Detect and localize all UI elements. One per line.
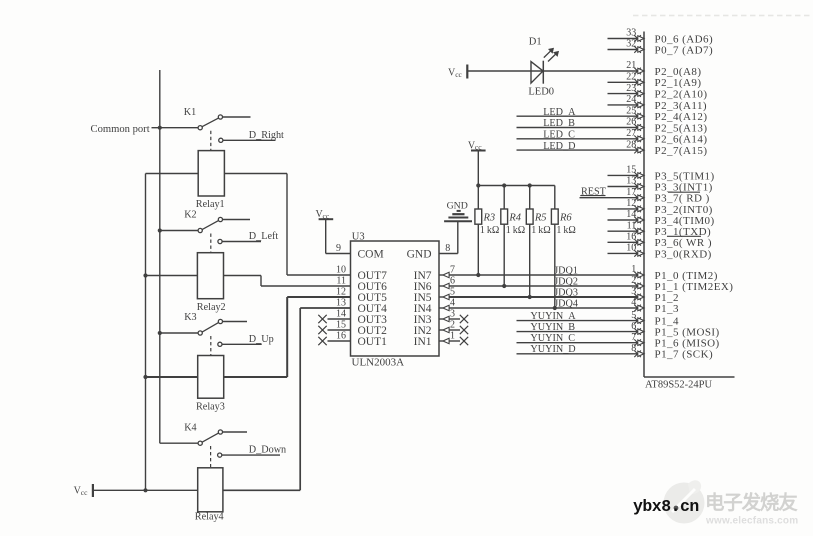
svg-text:1 kΩ: 1 kΩ (556, 225, 575, 236)
svg-text:cc: cc (323, 211, 330, 220)
pin 13 P3_3 (608, 176, 713, 194)
pin 23 P2_2 (608, 83, 708, 101)
svg-text:OUT1: OUT1 (358, 336, 388, 348)
svg-text:R6: R6 (559, 213, 572, 224)
pin 3 IN3 (414, 309, 469, 326)
resistor R3 1kΩ (475, 186, 499, 276)
wire K4 actuator dashed link (210, 446, 212, 467)
pin 12 P3_2 (608, 198, 713, 216)
svg-text:6: 6 (450, 276, 455, 287)
pin 24 P2_3 (608, 94, 708, 112)
svg-text:15: 15 (336, 319, 346, 330)
svg-text:1 kΩ: 1 kΩ (531, 225, 550, 236)
pin 11 OUT6 (261, 275, 387, 293)
svg-text:5: 5 (450, 287, 455, 298)
junction bus-R4 (502, 183, 506, 187)
wire K2 actuator dashed link (210, 234, 212, 253)
switch K1 (160, 107, 251, 130)
svg-text:P2_1(A9): P2_1(A9) (655, 77, 702, 89)
svg-text:LED_C: LED_C (543, 130, 575, 141)
svg-text:JDQ1: JDQ1 (554, 266, 578, 277)
svg-text:11: 11 (336, 275, 346, 286)
switch K4 (160, 423, 247, 446)
svg-text:10: 10 (336, 264, 346, 275)
junction R4-JDQ (502, 284, 506, 288)
pin 13 OUT4 (300, 297, 387, 315)
junction rail-Relay3 (143, 375, 147, 379)
net YUYIN_A (517, 311, 638, 322)
svg-text:YUYIN_B: YUYIN_B (530, 322, 575, 333)
node D_Down (218, 445, 287, 458)
relay coil Relay3 (196, 356, 225, 413)
junction R5-JDQ (528, 295, 532, 299)
svg-text:1 kΩ: 1 kΩ (506, 225, 525, 236)
node D_Left (218, 231, 278, 243)
svg-text:ULN2003A: ULN2003A (352, 357, 405, 369)
resistor R6 1kΩ (551, 186, 575, 309)
svg-text:P1_7 (SCK): P1_7 (SCK) (655, 349, 714, 361)
svg-text:10: 10 (626, 243, 636, 254)
svg-text:Relay3: Relay3 (196, 401, 225, 412)
wire left rail (relay coils common) (145, 174, 147, 491)
svg-text:3: 3 (450, 309, 455, 320)
pin 33 P0_6 (AD6) (608, 28, 714, 46)
svg-text:D_Right: D_Right (249, 130, 284, 141)
pin 21 P2_0 (626, 60, 701, 78)
wire Vcc to P2_0 pin 21 (467, 70, 637, 72)
svg-text:K3: K3 (184, 312, 196, 323)
svg-text:YUYIN_C: YUYIN_C (530, 333, 575, 344)
svg-text:17: 17 (626, 187, 636, 198)
svg-text:14: 14 (336, 308, 346, 319)
svg-text:AT89S52-24PU: AT89S52-24PU (645, 379, 713, 390)
node D_Up (218, 334, 274, 347)
pin 2 IN2 (414, 320, 469, 337)
svg-text:P3_4(TIM0): P3_4(TIM0) (655, 215, 715, 227)
svg-text:P2_0(A8): P2_0(A8) (655, 66, 702, 78)
svg-text:23: 23 (626, 83, 636, 94)
svg-text:IN1: IN1 (414, 336, 432, 348)
svg-text:P3_3(INT1): P3_3(INT1) (655, 181, 713, 193)
pin 25 P2_4 (626, 105, 707, 123)
svg-text:21: 21 (626, 60, 636, 71)
power Vcc (U3 pin 9) (316, 209, 334, 253)
svg-text:JDQ2: JDQ2 (554, 277, 578, 288)
svg-text:4: 4 (631, 297, 636, 308)
svg-text:K1: K1 (184, 107, 196, 118)
wire Vcc to Relay4 (93, 489, 198, 491)
svg-text:Relay4: Relay4 (195, 512, 224, 523)
svg-text:1: 1 (450, 331, 455, 342)
wire K1 actuator dashed link (210, 131, 212, 151)
pin 11 P3_1 (608, 220, 712, 238)
switch K2 (160, 210, 250, 233)
wire rail to Relay2 (146, 275, 198, 277)
svg-text:K2: K2 (184, 210, 196, 221)
pin 12 OUT5 (287, 286, 387, 304)
pin 3 P1_2 (631, 286, 679, 304)
wire Relay3 to OUT5 riser (224, 297, 288, 377)
pin 4 P1_3 (631, 297, 679, 315)
net LED_A (517, 107, 638, 118)
svg-text:8: 8 (445, 243, 450, 254)
net LED_B (517, 118, 638, 129)
junction bus-R5 (528, 183, 532, 187)
svg-text:22: 22 (626, 72, 636, 83)
svg-text:cc: cc (455, 70, 462, 79)
net YUYIN_B (517, 322, 638, 333)
svg-text:1: 1 (631, 264, 636, 275)
pin 5 IN5 (414, 287, 455, 304)
wire resistor top bus (478, 185, 555, 187)
svg-text:电子发烧友: 电子发烧友 (705, 491, 798, 514)
svg-text:7: 7 (450, 265, 455, 276)
svg-text:9: 9 (336, 243, 341, 254)
svg-text:16: 16 (336, 330, 346, 341)
svg-text:P3_0(RXD): P3_0(RXD) (655, 248, 712, 260)
node D_Right (219, 130, 284, 143)
net JDQ3 (449, 288, 637, 299)
pin 14 OUT3 (318, 308, 387, 326)
svg-text:GND: GND (447, 200, 468, 211)
svg-text:2: 2 (450, 320, 455, 331)
svg-text:R5: R5 (534, 213, 547, 224)
pin 15 OUT2 (318, 319, 387, 337)
junction rail-Vcc line (143, 488, 147, 492)
pin 10 P3_0 (608, 243, 712, 261)
svg-text:GND: GND (407, 249, 432, 261)
svg-text:www.elecfans.com: www.elecfans.com (705, 516, 798, 527)
svg-text:27: 27 (626, 128, 636, 139)
pin 8 GND (407, 222, 458, 261)
pin 26 P2_5 (626, 117, 707, 135)
svg-text:16: 16 (626, 232, 636, 243)
svg-text:D1: D1 (529, 37, 542, 48)
pin 14 P3_4 (608, 209, 715, 227)
pin 17 P3_7 (626, 187, 709, 205)
junction bus-K1 (158, 126, 162, 130)
svg-text:5: 5 (631, 310, 636, 321)
net REST (580, 186, 638, 197)
pin 1 IN1 (414, 331, 469, 348)
svg-text:13: 13 (336, 297, 346, 308)
svg-text:LED0: LED0 (528, 87, 554, 98)
net JDQ4 (449, 299, 637, 310)
switch K3 (160, 312, 247, 335)
svg-text:15: 15 (626, 165, 636, 176)
svg-text:24: 24 (626, 94, 636, 105)
svg-text:LED_D: LED_D (543, 141, 575, 152)
pin 10 OUT7 (287, 264, 387, 282)
power Vcc (resistor bank) (468, 141, 486, 186)
svg-text:P2_5(A13): P2_5(A13) (655, 122, 708, 134)
junction rail-Relay2 (143, 273, 147, 277)
svg-text:7: 7 (631, 332, 636, 343)
svg-text:U3: U3 (352, 231, 365, 242)
net YUYIN_D (517, 344, 638, 355)
junction R3-JDQ (476, 273, 480, 277)
pin 8 P1_7 (631, 343, 713, 361)
svg-text:P2_2(A10): P2_2(A10) (655, 89, 708, 101)
net LED_D (517, 141, 638, 152)
svg-text:R4: R4 (508, 213, 521, 224)
svg-text:12: 12 (336, 286, 346, 297)
junction bus-K2 (158, 228, 162, 232)
wire K3 actuator dashed link (210, 336, 212, 355)
resistor R4 1kΩ (501, 186, 525, 287)
svg-text:Relay2: Relay2 (197, 302, 226, 313)
svg-text:8: 8 (631, 343, 636, 354)
pin 9 COM (326, 243, 384, 260)
junction Vcc-R3 (476, 183, 480, 187)
wire bus from Common port down to K4 (159, 70, 161, 443)
resistor R5 1kΩ (526, 186, 550, 298)
pin 27 P2_6 (626, 128, 707, 146)
pin 22 P2_1 (608, 72, 702, 90)
svg-text:P0_7 (AD7): P0_7 (AD7) (655, 44, 714, 56)
microcontroller AT89S52-24PU (644, 32, 735, 391)
pin 5 P1_4 (631, 310, 679, 328)
power Vcc (LED) (448, 65, 467, 79)
power Vcc (bottom left) (74, 484, 93, 497)
svg-text:LED_B: LED_B (543, 118, 575, 129)
pin 16 OUT1 (318, 330, 387, 348)
svg-text:P1_3: P1_3 (655, 303, 679, 315)
svg-text:P2_4(A12): P2_4(A12) (655, 111, 708, 123)
svg-text:YUYIN_A: YUYIN_A (530, 311, 576, 322)
svg-text:14: 14 (626, 209, 636, 220)
wire Relay4 to OUT4 riser (223, 308, 300, 490)
pin 16 P3_6 (608, 232, 712, 250)
svg-text:6: 6 (631, 321, 636, 332)
svg-text:26: 26 (626, 117, 636, 128)
net YUYIN_C (517, 333, 638, 344)
svg-text:P2_7(A15): P2_7(A15) (655, 145, 708, 157)
svg-text:D_Left: D_Left (249, 231, 279, 242)
IC U3 ULN2003A (351, 231, 440, 368)
junction bus-K3 (158, 331, 162, 335)
pin 28 P2_7 (626, 139, 707, 157)
svg-text:25: 25 (626, 105, 636, 116)
svg-text:ybx8.cn: ybx8.cn (633, 497, 699, 516)
pin 15 P3_5 (608, 165, 715, 183)
wire rail to Relay3 (146, 376, 198, 378)
wire rail to Relay1 (146, 173, 199, 175)
pin 6 IN6 (414, 276, 455, 293)
pin 2 P1_1 (631, 275, 733, 293)
svg-text:K4: K4 (184, 423, 196, 434)
svg-text:33: 33 (626, 28, 636, 39)
svg-text:32: 32 (626, 39, 636, 50)
junction R6-JDQ (553, 306, 557, 310)
ground (U3 pin 8) (444, 200, 472, 221)
wire Relay2 to OUT6 step (224, 276, 262, 287)
relay coil Relay2 (197, 253, 226, 314)
svg-text:3: 3 (631, 286, 636, 297)
net JDQ2 (449, 277, 637, 288)
LED D1 LED0 (528, 37, 558, 98)
svg-text:YUYIN_D: YUYIN_D (530, 344, 575, 355)
svg-text:P3_7( RD ): P3_7( RD ) (655, 193, 710, 205)
relay coil Relay4 (195, 468, 224, 523)
pin 32 P0_7 (AD7) (608, 39, 714, 57)
svg-text:JDQ3: JDQ3 (554, 288, 578, 299)
svg-text:Relay1: Relay1 (196, 199, 225, 210)
svg-text:LED_A: LED_A (543, 107, 576, 118)
svg-text:Common port: Common port (91, 124, 150, 135)
wire Relay1 to OUT7 riser (224, 174, 287, 276)
svg-text:28: 28 (626, 139, 636, 150)
svg-text:1 kΩ: 1 kΩ (480, 225, 499, 236)
svg-text:cc: cc (475, 143, 482, 152)
pin 4 IN4 (414, 298, 455, 315)
svg-text:COM: COM (358, 249, 384, 261)
net JDQ1 (449, 266, 637, 277)
node Common port (91, 124, 160, 135)
svg-text:P2_6(A14): P2_6(A14) (655, 134, 708, 146)
pin 1 P1_0 (631, 264, 718, 282)
svg-text:D_Up: D_Up (249, 334, 274, 345)
svg-text:JDQ4: JDQ4 (554, 299, 578, 310)
svg-text:cc: cc (81, 488, 88, 497)
svg-text:R3: R3 (483, 213, 496, 224)
svg-text:D_Down: D_Down (249, 445, 286, 456)
svg-text:P2_3(A11): P2_3(A11) (655, 100, 708, 112)
net LED_C (517, 130, 638, 141)
pin 7 IN7 (414, 265, 455, 282)
pin 6 P1_5 (631, 321, 719, 339)
svg-text:2: 2 (631, 275, 636, 286)
svg-text:13: 13 (626, 176, 636, 187)
svg-text:4: 4 (450, 298, 455, 309)
pin 7 P1_6 (631, 332, 719, 350)
svg-text:12: 12 (626, 198, 636, 209)
relay coil Relay1 (196, 151, 225, 211)
svg-text:11: 11 (627, 220, 637, 231)
